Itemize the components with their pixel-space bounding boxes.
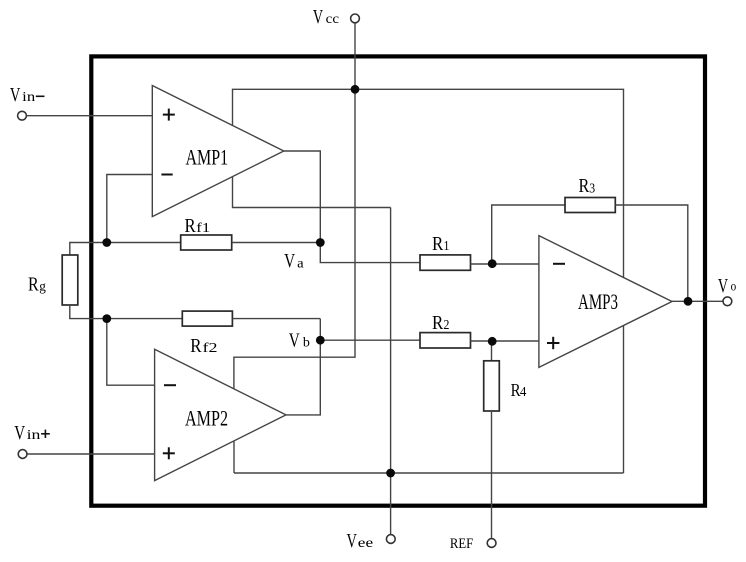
svg-text:V: V bbox=[718, 275, 729, 297]
svg-text:b: b bbox=[303, 336, 310, 351]
junction R2/R4 at AMP3 non-inverting input bbox=[488, 337, 497, 346]
svg-text:3: 3 bbox=[589, 181, 595, 196]
wire AMP3 output to Vo bbox=[672, 300, 723, 302]
wire Vee vertical bbox=[390, 208, 392, 535]
svg-text:R: R bbox=[190, 335, 202, 357]
resistor R4 bbox=[484, 361, 500, 411]
svg-text:V: V bbox=[313, 6, 324, 28]
junction R1/R3 at AMP3 inverting input bbox=[488, 259, 497, 268]
svg-text:V: V bbox=[14, 422, 25, 444]
AMP1 plus sign bbox=[163, 114, 175, 116]
svg-text:V: V bbox=[284, 250, 295, 272]
svg-text:R: R bbox=[185, 215, 197, 237]
svg-text:1: 1 bbox=[444, 239, 450, 254]
AMP1 minus sign bbox=[161, 174, 172, 176]
wire node A to Rf1 bbox=[107, 242, 181, 244]
resistor Rf1 bbox=[181, 235, 232, 250]
svg-text:R: R bbox=[432, 233, 444, 255]
AMP3 minus sign bbox=[553, 263, 565, 265]
terminal Vo bbox=[723, 297, 732, 306]
svg-text:in: in bbox=[22, 90, 35, 105]
AMP3 plus sign bbox=[547, 342, 559, 344]
op-amp AMP2 bbox=[155, 349, 286, 480]
wire R3 to output node bbox=[615, 205, 688, 301]
Vin- label minus sign bbox=[36, 95, 45, 97]
resistor Rg bbox=[62, 255, 78, 305]
terminal Vee bbox=[386, 535, 395, 544]
wire AMP3 negative supply bbox=[623, 326, 625, 474]
node A junction bbox=[102, 238, 111, 247]
wire R1 to AMP3 inverting input bbox=[471, 263, 539, 265]
wire AMP1 output to node Va bbox=[284, 151, 321, 243]
wire Rf2 to node Vb bbox=[232, 318, 320, 320]
wire AMP2 negative supply bbox=[233, 441, 235, 473]
wire node B to Rf2 bbox=[107, 318, 183, 320]
junction Vcc rail bbox=[351, 85, 360, 94]
svg-text:V: V bbox=[289, 330, 300, 352]
svg-text:f1: f1 bbox=[196, 221, 210, 236]
wire Vcc rail bbox=[233, 89, 624, 277]
node Vb junction bbox=[316, 336, 325, 345]
resistor R3 bbox=[565, 198, 615, 213]
svg-text:AMP1: AMP1 bbox=[186, 145, 229, 170]
op-amp AMP3 bbox=[539, 236, 672, 368]
svg-text:ee: ee bbox=[358, 536, 373, 551]
resistor Rf2 bbox=[182, 311, 232, 326]
svg-text:AMP2: AMP2 bbox=[185, 406, 228, 431]
wire R2 node down to R4 bbox=[491, 341, 493, 361]
wire R1 node up to R3 bbox=[492, 205, 565, 264]
terminal REF bbox=[487, 539, 496, 548]
node B junction bbox=[102, 314, 111, 323]
svg-text:R: R bbox=[28, 274, 39, 296]
node Va junction bbox=[316, 238, 325, 247]
svg-text:g: g bbox=[39, 280, 46, 295]
svg-text:REF: REF bbox=[450, 536, 473, 552]
svg-text:o: o bbox=[731, 280, 737, 295]
IC border bbox=[91, 56, 705, 505]
wire Vin- to AMP1 + input bbox=[27, 115, 153, 117]
wire Vcc down to AMP2 supply bbox=[234, 23, 355, 389]
wire node Vb to R2 bbox=[320, 339, 420, 341]
wire R4 to REF terminal bbox=[491, 411, 493, 538]
svg-text:V: V bbox=[347, 530, 358, 552]
terminal Vin- bbox=[18, 111, 27, 120]
svg-text:in: in bbox=[27, 428, 41, 443]
terminal Vin+ bbox=[18, 450, 27, 459]
AMP2 plus sign bbox=[163, 452, 175, 454]
resistor R2 bbox=[420, 333, 471, 348]
svg-text:f2: f2 bbox=[203, 341, 218, 356]
svg-text:R: R bbox=[432, 312, 444, 334]
wire node B to AMP2 inverting input bbox=[107, 319, 155, 386]
svg-text:cc: cc bbox=[326, 12, 339, 27]
junction Vee rail bbox=[386, 469, 395, 478]
wire AMP1 inverting input bbox=[107, 175, 153, 243]
svg-text:R: R bbox=[579, 175, 590, 197]
wire Rf2 corner down through Vb to AMP2 output bbox=[286, 319, 320, 415]
wire AMP1 negative supply to Vee line bbox=[233, 177, 391, 208]
resistor R1 bbox=[420, 255, 471, 270]
terminal Vcc bbox=[351, 14, 360, 23]
wire node A to Rg top bbox=[70, 243, 107, 256]
svg-text:V: V bbox=[10, 84, 21, 106]
wire Rg bottom to node B bbox=[70, 305, 107, 319]
svg-text:4: 4 bbox=[520, 385, 527, 400]
op-amp AMP1 bbox=[152, 86, 283, 217]
wire node Va down to R1 row bbox=[320, 243, 420, 263]
junction output node bbox=[684, 297, 693, 306]
svg-text:AMP3: AMP3 bbox=[578, 289, 618, 314]
svg-text:a: a bbox=[297, 257, 304, 272]
wire R2 to AMP3 non-inverting input bbox=[471, 340, 539, 342]
AMP2 minus sign bbox=[164, 384, 176, 386]
svg-text:2: 2 bbox=[444, 318, 450, 333]
Vin+ label plus sign bbox=[41, 433, 50, 435]
wire Vin+ to AMP2 + input bbox=[27, 453, 154, 455]
wire Rf1 to node Va bbox=[232, 242, 321, 244]
wire Vee rail bbox=[234, 472, 624, 474]
